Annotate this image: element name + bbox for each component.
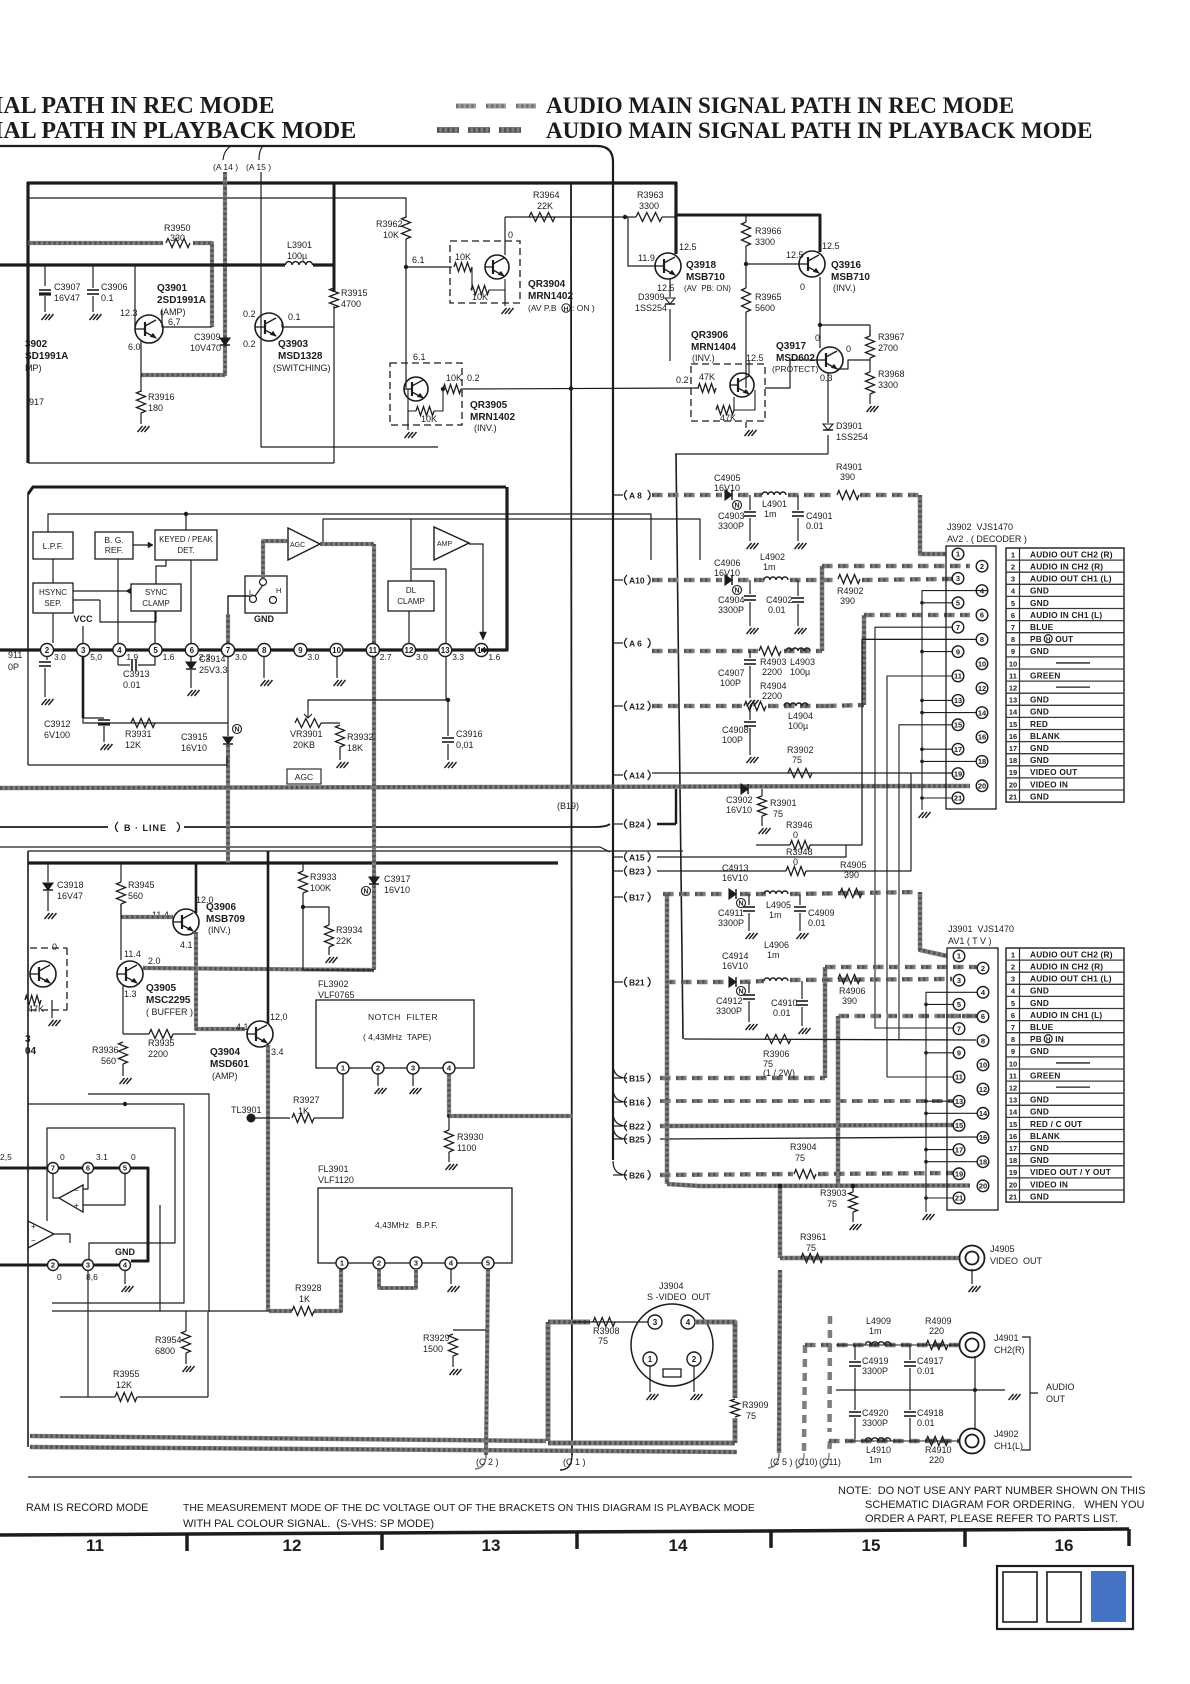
resistor R3968 (869, 358, 871, 372)
svg-text:11: 11 (954, 672, 962, 681)
svg-text:J4905: J4905 (990, 1244, 1015, 1254)
svg-text:560: 560 (101, 1056, 116, 1066)
wire: B22 heavy row to pin15 (660, 1125, 953, 1126)
svg-text:AUDIO OUT CH2 (R): AUDIO OUT CH2 (R) (1030, 949, 1113, 959)
svg-text:16: 16 (1009, 1132, 1017, 1141)
J3904 keying notch (663, 1369, 681, 1377)
svg-text:1m: 1m (764, 509, 777, 519)
svg-text:CH2(R): CH2(R) (994, 1345, 1025, 1355)
svg-text:2,5: 2,5 (0, 1152, 12, 1162)
svg-text:GND: GND (1030, 998, 1049, 1008)
ground under R3968 (867, 406, 879, 412)
inductor L4909 (865, 1342, 891, 1345)
svg-text:+: + (74, 1201, 79, 1210)
amp AMP triangle (434, 527, 469, 560)
ground under C4912 (746, 1024, 758, 1030)
svg-text:R3927: R3927 (293, 1095, 320, 1105)
svg-text:C4918: C4918 (917, 1408, 944, 1418)
ground under R3934 (326, 957, 338, 963)
svg-text:THE MEASUREMENT MODE OF THE DC: THE MEASUREMENT MODE OF THE DC VOLTAGE O… (183, 1503, 755, 1514)
svg-text:AUDIO MAIN SIGNAL PATH IN PLAY: AUDIO MAIN SIGNAL PATH IN PLAYBACK MODE (546, 118, 1093, 143)
node (A12) tag (613, 705, 623, 707)
svg-text:GND: GND (1030, 598, 1049, 608)
svg-text:Q3904: Q3904 (210, 1047, 240, 1058)
dashed box QR3904 (450, 241, 520, 303)
svg-text:20KB: 20KB (293, 740, 315, 750)
svg-text:B21: B21 (629, 977, 645, 987)
svg-text:10V470: 10V470 (190, 343, 221, 353)
ground under cropped transistor (49, 1020, 61, 1026)
svg-text:R3948: R3948 (786, 847, 813, 857)
svg-text:L4904: L4904 (788, 711, 813, 721)
svg-text:CH1(L): CH1(L) (994, 1441, 1023, 1451)
svg-text:22K: 22K (537, 201, 553, 211)
svg-text:AUDIO IN CH2 (R): AUDIO IN CH2 (R) (1030, 962, 1103, 972)
svg-text:BLUE: BLUE (1030, 1022, 1054, 1032)
wire: heavy top interconnect y=487 (28, 487, 506, 494)
capacitor C4907 (749, 651, 751, 658)
transistor Q3917 (817, 347, 843, 373)
filter FL3902 box (316, 1000, 474, 1068)
wire: Q3918 emitter down through D3909 (669, 279, 671, 297)
svg-text:(INV.): (INV.) (474, 423, 497, 433)
svg-text:14: 14 (669, 1536, 688, 1555)
svg-text:16V10: 16V10 (714, 483, 740, 493)
wire: pin13 down to node C3916 (445, 657, 447, 700)
capacitor C4909 (799, 894, 801, 905)
wire: Q3916 base to R3966 node (746, 263, 799, 265)
resistor R4905 (840, 889, 862, 898)
pin 2 of FL3902 (372, 1062, 384, 1074)
svg-text:10K: 10K (446, 373, 462, 383)
svg-text:1.6: 1.6 (163, 652, 175, 662)
svg-text:B24: B24 (629, 819, 645, 829)
svg-text:IAL PATH IN PLAYBACK MODE: IAL PATH IN PLAYBACK MODE (0, 118, 356, 144)
svg-text:2: 2 (377, 1259, 381, 1268)
wire: (A 8) shielded row (652, 493, 663, 498)
node (A14) tag (613, 774, 623, 776)
svg-text:GND: GND (1030, 1046, 1049, 1056)
svg-text:6.0: 6.0 (128, 342, 141, 352)
wire: opamp A connections (53, 1174, 59, 1198)
svg-text:1m: 1m (869, 1326, 882, 1336)
capacitor C4913 polarized (729, 889, 736, 899)
pin 8 of J3901 (977, 1035, 989, 1047)
resistor R3946 and line (756, 844, 790, 846)
pin 6 of J3902 (976, 609, 988, 621)
svg-text:NOTE: DO NOT USE ANY PART NUM: NOTE: DO NOT USE ANY PART NUMBER SHOWN O… (838, 1485, 1145, 1497)
svg-text:0.01: 0.01 (773, 1008, 791, 1018)
capacitor C3916 (447, 700, 449, 736)
svg-text:11.9: 11.9 (638, 253, 655, 263)
ground under opamp pin4 (124, 1271, 126, 1284)
svg-text:VIDEO OUT: VIDEO OUT (990, 1256, 1043, 1266)
svg-text:H: H (1046, 638, 1050, 644)
pin 14 of J3902 (976, 707, 988, 719)
svg-text:16V10: 16V10 (722, 961, 748, 971)
svg-text:1K: 1K (299, 1294, 310, 1304)
svg-text:10: 10 (332, 646, 341, 655)
svg-text:10K: 10K (383, 230, 399, 240)
capacitor C3913 (117, 657, 119, 665)
pin 3 of J3901 (953, 974, 965, 986)
svg-text:47K: 47K (699, 372, 715, 382)
svg-text:0.01: 0.01 (123, 680, 141, 690)
svg-text:0.2: 0.2 (676, 375, 689, 385)
svg-text:R3935: R3935 (148, 1038, 175, 1048)
svg-text:MRN1404: MRN1404 (691, 342, 736, 353)
wire: Q3904 emitter gray down to R3928 corner (266, 1045, 270, 1311)
resistor 10K (QR3904 base) (454, 263, 472, 272)
svg-text:2200: 2200 (762, 667, 782, 677)
pin 21 of J3901 (953, 1192, 965, 1204)
svg-text:16V10: 16V10 (722, 873, 748, 883)
svg-text:R3929: R3929 (423, 1333, 450, 1343)
block KEYED/PEAK DET. (155, 530, 217, 560)
wire: J3902 cross verticals (862, 639, 952, 845)
svg-text:6: 6 (1011, 1011, 1015, 1020)
svg-text:AUDIO OUT CH2 (R): AUDIO OUT CH2 (R) (1030, 549, 1113, 559)
node (B24) tag (613, 823, 623, 825)
resistor R3954 (185, 1311, 187, 1331)
svg-text:(B19): (B19) (557, 801, 579, 811)
svg-text:C3915: C3915 (181, 732, 208, 742)
pin 10 of IC (330, 644, 343, 657)
capacitor C4911 (748, 894, 750, 905)
resistor 10K (QR3904 feedback) (471, 286, 489, 295)
node B-LINE (0, 826, 108, 828)
svg-text:L4902: L4902 (760, 552, 785, 562)
capacitor C4920 (854, 1390, 856, 1410)
wire: R3963 junction down to Q3918 base (625, 216, 628, 218)
capacitor C4906 polarized (725, 575, 732, 585)
svg-text:0: 0 (793, 830, 798, 840)
capacitor C3915 polarized (223, 737, 233, 744)
svg-text:220: 220 (929, 1326, 944, 1336)
svg-text:B · LINE: B · LINE (124, 823, 167, 833)
svg-text:3: 3 (653, 1318, 658, 1327)
grounds under J3904 pins 1,2 (649, 1366, 651, 1392)
svg-text:9: 9 (1011, 1047, 1015, 1056)
svg-text:C3909: C3909 (194, 332, 221, 342)
svg-text:22K: 22K (336, 936, 352, 946)
svg-text:3: 3 (81, 646, 86, 655)
resistor R3902 (788, 769, 812, 778)
svg-text:GND: GND (1030, 1155, 1049, 1165)
wire: gray from pin4 FL3902 down and right to C1 vertical (447, 1074, 451, 1116)
resistor R3961 (801, 1254, 823, 1263)
svg-text:9: 9 (956, 647, 960, 656)
svg-text:2: 2 (45, 646, 50, 655)
wire: pin3 vertical down to R3955 line (87, 1271, 89, 1397)
svg-text:0.2: 0.2 (243, 339, 256, 349)
svg-text:R3955: R3955 (113, 1369, 140, 1379)
svg-text:R4901: R4901 (836, 462, 863, 472)
wire: opamp B connections (47, 1128, 175, 1265)
svg-text:C4910: C4910 (771, 998, 798, 1008)
svg-text:11: 11 (86, 1536, 104, 1555)
svg-text:C4911: C4911 (718, 908, 744, 918)
svg-text:QR3904: QR3904 (528, 279, 566, 290)
svg-text:IAL PATH IN REC MODE: IAL PATH IN REC MODE (0, 93, 274, 119)
wire: heavy video-in bus y=789 full width (gray) (0, 786, 970, 788)
wire: J3901 ground bus (926, 992, 977, 1212)
pin 1 of FL3901 (336, 1257, 348, 1269)
ground under J4905 (971, 1269, 973, 1284)
resistor R3909 (731, 1399, 740, 1417)
svg-text:FL3902: FL3902 (318, 979, 349, 989)
resistor 47K (QR3906 feedback) (716, 406, 734, 415)
pin 5 of J3901 (953, 999, 965, 1011)
svg-text:2: 2 (376, 1064, 380, 1073)
svg-text:4,43MHz B.P.F.: 4,43MHz B.P.F. (375, 1220, 438, 1230)
wire: LPF-HSYNC connections (52, 559, 54, 583)
pin 19 of J3902 (952, 768, 964, 780)
transistor Q3904 (247, 1021, 273, 1047)
svg-text:B26: B26 (629, 1170, 645, 1180)
resistor R3965 (742, 288, 751, 312)
wire: pin3 line with R3908 (548, 1320, 590, 1325)
svg-text:L4906: L4906 (764, 940, 789, 950)
transistor Q3903 (255, 313, 283, 341)
svg-text:21: 21 (955, 1194, 963, 1203)
wire: R3933 node to R3934 (303, 907, 329, 925)
node (B15) tag (613, 1077, 623, 1079)
svg-text:MSD602: MSD602 (776, 353, 815, 364)
svg-text:MRN1402: MRN1402 (528, 291, 573, 302)
svg-text:18: 18 (979, 1157, 987, 1166)
svg-text:GND: GND (1030, 646, 1049, 656)
svg-text:330: 330 (170, 233, 185, 243)
wire: FL3901 pin2-pin3 gray loop (379, 1269, 416, 1288)
inductor L4901 (762, 492, 786, 495)
wire: AMP triangle output down to pin14 with arrow (469, 544, 483, 633)
wire: J3902 video in row 20 heavy (946, 785, 952, 787)
svg-text:J3904: J3904 (659, 1281, 684, 1291)
svg-text:R3932: R3932 (347, 732, 374, 742)
wire: Q3903 collector to x=334 vertical (282, 322, 334, 327)
wire: audio block bottom row shielded (829, 1439, 840, 1444)
svg-text:19: 19 (1009, 1168, 1017, 1177)
svg-text:NOTCH FILTER: NOTCH FILTER (368, 1012, 438, 1022)
wire: IC left stubs (0, 1135, 28, 1137)
svg-text:J4902: J4902 (994, 1429, 1019, 1439)
svg-text:3: 3 (86, 1261, 90, 1270)
svg-text:14: 14 (1009, 1108, 1018, 1117)
pin 4 of J3901 (977, 987, 989, 999)
pin 3 of opamp IC (83, 1260, 94, 1271)
svg-text:560: 560 (128, 891, 143, 901)
transistor (left cropped) with 47K (30, 961, 56, 987)
svg-text:2: 2 (980, 562, 984, 571)
transistor Q3916 (799, 251, 825, 277)
svg-text:10: 10 (1009, 659, 1017, 668)
svg-text:C4917: C4917 (917, 1356, 944, 1366)
svg-text:N: N (734, 588, 739, 595)
svg-text:3902: 3902 (25, 339, 48, 350)
wire: R3933 lower node joins gray row (303, 969, 374, 971)
svg-text:4.1: 4.1 (236, 1022, 249, 1032)
wire: A12 riser to pin6 row (826, 703, 836, 708)
svg-text:7: 7 (957, 1024, 961, 1033)
wire: C2 gray hook (475, 1455, 486, 1469)
svg-text:25V3.3: 25V3.3 (199, 665, 228, 675)
svg-text:D3901: D3901 (836, 421, 863, 431)
svg-text:2200: 2200 (148, 1049, 168, 1059)
resistor R3935 (149, 1030, 173, 1039)
svg-text:GND: GND (1030, 1143, 1049, 1153)
svg-text:20: 20 (1009, 780, 1017, 789)
pin 7 of J3901 (953, 1023, 965, 1035)
svg-text:OUT: OUT (1046, 1394, 1066, 1404)
wire: B25 row to pin16 (660, 1137, 977, 1139)
wire: B15 row to pin2 riser (660, 1076, 671, 1081)
pin 9 of J3902 (952, 646, 964, 658)
wire: bottom gray shield bus lower (30, 1447, 737, 1452)
svg-text:J3902 VJS1470: J3902 VJS1470 (947, 522, 1013, 532)
wire: pin13 up stub (412, 569, 446, 643)
capacitor C3909 polarized (224, 330, 226, 338)
wire: TL3901 line with R3927 to FL3902 pin1 (251, 1117, 290, 1119)
svg-text:H: H (564, 306, 569, 313)
pin 5 of opamp IC (120, 1163, 131, 1174)
resistor R3901 (761, 789, 763, 796)
svg-text:0.2: 0.2 (243, 309, 256, 319)
svg-text:9: 9 (1011, 647, 1015, 656)
resistor R3904 (794, 1170, 816, 1179)
ground under C4908 (747, 757, 759, 763)
wire: (A15) vertical down to y=447 (261, 172, 438, 447)
svg-text:CLAMP: CLAMP (142, 599, 170, 608)
svg-text:C3907: C3907 (54, 282, 81, 292)
svg-text:(1 / 2W): (1 / 2W) (763, 1068, 795, 1078)
svg-text:0.01: 0.01 (917, 1366, 935, 1376)
svg-text:16: 16 (978, 733, 986, 742)
wire: (A12) shielded row (652, 704, 663, 709)
svg-text:GND: GND (1030, 586, 1049, 596)
svg-text:R3930: R3930 (457, 1132, 484, 1142)
resistor R4903 (759, 647, 781, 656)
wire: (A10) shielded row (652, 578, 663, 583)
svg-text:KEYED / PEAK: KEYED / PEAK (159, 535, 214, 544)
svg-text:R3962: R3962 (376, 219, 403, 229)
wire: QR3906 emitter down to ground (733, 397, 735, 410)
pin 14 of J3901 (977, 1108, 989, 1120)
svg-text:R3964: R3964 (533, 190, 560, 200)
capacitor C3912 electrolytic (83, 717, 104, 719)
svg-text:AGC: AGC (290, 542, 305, 549)
svg-text:R3915: R3915 (341, 288, 368, 298)
svg-text:VLF1120: VLF1120 (318, 1175, 354, 1185)
svg-text:−: − (31, 1236, 36, 1245)
svg-text:BLANK: BLANK (1030, 1131, 1060, 1141)
pin 6 of J3901 (977, 1011, 989, 1023)
svg-text:(SWITCHING): (SWITCHING) (273, 363, 331, 373)
svg-text:12: 12 (1009, 1084, 1017, 1093)
resistor R3906 (765, 1035, 791, 1044)
svg-text:3300: 3300 (755, 237, 775, 247)
svg-text:CLAMP: CLAMP (397, 597, 425, 606)
wire: sync clamp up to KPD (156, 560, 166, 584)
svg-text:Q3906: Q3906 (206, 902, 236, 913)
svg-text:C3906: C3906 (101, 282, 128, 292)
svg-text:10K: 10K (472, 292, 488, 302)
svg-text:(AV PB: ON): (AV PB: ON) (684, 284, 731, 293)
svg-text:A 8: A 8 (629, 490, 642, 500)
pin 12 of J3902 (976, 682, 988, 694)
svg-text:MSD601: MSD601 (210, 1059, 249, 1070)
svg-text:R3903: R3903 (820, 1188, 847, 1198)
svg-text:20: 20 (979, 1182, 987, 1191)
svg-text:1SS254: 1SS254 (635, 303, 667, 313)
pin 7 of IC redraw (222, 644, 235, 657)
svg-text:0.1: 0.1 (101, 293, 114, 303)
svg-text:R4904: R4904 (760, 681, 787, 691)
svg-text:2.0: 2.0 (148, 956, 161, 966)
pin 7 of J3902 (952, 621, 964, 633)
ground under C3907 (42, 314, 54, 320)
ground under J3901 (923, 1214, 935, 1220)
pin 4 of opamp IC (120, 1260, 131, 1271)
resistor R3928 on gray path (269, 1309, 292, 1313)
svg-text:1SS254: 1SS254 (836, 432, 868, 442)
svg-text:B. G.: B. G. (104, 535, 123, 545)
svg-text:12: 12 (283, 1536, 302, 1555)
pin 3 of IC (77, 644, 90, 657)
svg-text:VIDEO OUT: VIDEO OUT (1030, 767, 1077, 777)
svg-text:4: 4 (117, 646, 122, 655)
svg-text:OUT: OUT (1055, 634, 1073, 644)
capacitor C4917 (909, 1345, 911, 1360)
pin 11 of IC (366, 644, 379, 657)
pin 7 of opamp IC (48, 1163, 59, 1174)
svg-text:16V47: 16V47 (54, 293, 80, 303)
pin 11 of J3901 (953, 1071, 965, 1083)
svg-text:R3916: R3916 (148, 392, 175, 402)
svg-text:C4908: C4908 (722, 725, 749, 735)
svg-text:11: 11 (369, 646, 378, 655)
svg-text:75: 75 (827, 1199, 837, 1209)
svg-text:AUDIO: AUDIO (1046, 1382, 1075, 1392)
wire: QR3904 collector up to R3964 line (504, 217, 506, 255)
wire: thin interconnect y=514 (48, 514, 651, 560)
svg-text:6: 6 (1011, 611, 1015, 620)
svg-text:1m: 1m (869, 1455, 882, 1465)
capacitor C4901 (797, 495, 799, 510)
wire: heavy line y=265 with L3901 (0, 263, 285, 266)
wire: B21 shielded row (665, 980, 676, 985)
pin 9 of IC (294, 644, 307, 657)
svg-text:R3931: R3931 (125, 729, 152, 739)
ground under pin 10 (336, 657, 338, 678)
opamp pin row top (0, 1167, 148, 1170)
svg-text:6,7: 6,7 (168, 317, 181, 327)
wire: thin interconnect y=519 (323, 519, 700, 560)
resistor R3964 (529, 213, 555, 222)
wire: heavy frame from pin14 up and left (481, 487, 507, 650)
resistor R3962 (402, 217, 411, 239)
svg-text:2200: 2200 (762, 691, 782, 701)
resistor R3932 (336, 725, 345, 747)
capacitor C3906 (92, 265, 94, 288)
svg-text:C4901: C4901 (806, 511, 833, 521)
svg-text:H: H (1046, 1038, 1050, 1044)
wire: Q3901 collector to gray loop (161, 310, 163, 323)
page indicator boxes (997, 1566, 1133, 1629)
svg-text:100µ: 100µ (790, 667, 810, 677)
svg-text:4: 4 (1011, 587, 1016, 596)
svg-text:21: 21 (954, 794, 962, 803)
